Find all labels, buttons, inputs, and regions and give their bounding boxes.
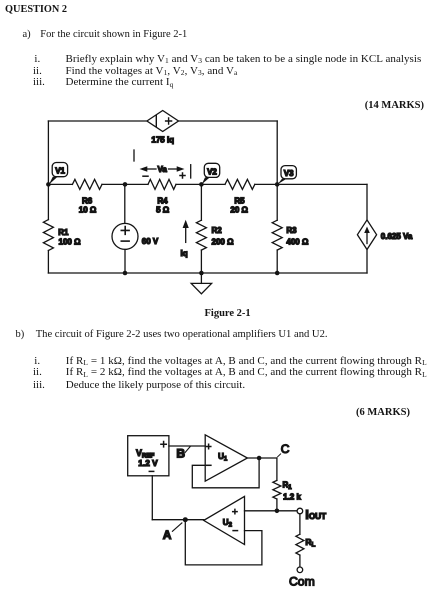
dependent source 0.625Va diamond [357,220,376,250]
node R3-bottom dot [275,271,280,276]
wire V3 to right edge [255,183,367,185]
wire VREF- down [151,476,153,520]
svg-text:C: C [281,442,290,456]
dependent source 175Iq diamond [147,111,179,132]
wire U2 plus input to IOUT [245,510,298,512]
Va annotation tick right [190,165,192,178]
item b.i [34,355,40,367]
svg-text:R6: R6 [82,197,93,206]
heading QUESTION 2 [5,4,67,15]
source 60V circle [112,223,138,249]
resistor R5 [225,179,255,189]
wire left vertical to R1 [47,184,49,219]
source VREF box [128,436,169,476]
ground [191,273,211,294]
item a.iii [33,76,45,88]
current Iq arrow [183,220,189,243]
resistor R6 [72,179,102,189]
Va annotation tick left [133,150,135,161]
wire top-right drop to V3 [276,121,278,184]
svg-text:B: B [176,446,185,460]
svg-text:V2: V2 [207,167,217,176]
wire C corner down to R1 [276,458,278,480]
svg-text:Com: Com [289,574,315,588]
svg-text:200 Ω: 200 Ω [212,237,235,246]
node label V1 callout [49,163,68,185]
node label V3 callout [278,166,297,185]
svg-text:RL: RL [305,537,315,549]
wire U1 feedback loop [192,458,259,488]
svg-text:20 Ω: 20 Ω [230,206,248,215]
wire right vertical lower [366,250,368,274]
node V1 dot [46,182,51,187]
Va arrow left [140,166,157,171]
wire V2 branch upper [200,184,202,220]
resistor R3 [272,220,282,250]
svg-text:V1: V1 [55,167,65,176]
svg-text:U1: U1 [218,452,228,463]
resistor R2 [196,220,206,250]
item b.ii [33,366,42,378]
wire V3 branch upper [276,184,278,220]
wire top rail left segment [48,120,146,122]
node C label [278,442,290,457]
wire right vertical upper [366,184,368,220]
svg-text:0.625 Va: 0.625 Va [381,232,413,241]
item b) label [16,329,25,341]
node V2 dot [199,182,204,187]
node U1 output dot [257,456,262,461]
item a) label [23,29,31,41]
resistor R1 (fig2-2) [273,480,281,499]
svg-text:400 Ω: 400 Ω [286,237,309,246]
svg-text:R1: R1 [283,480,293,491]
item b.iii [33,379,45,391]
terminal Com circle [297,567,303,573]
node V3 dot [275,182,280,187]
svg-text:175 Iq: 175 Iq [151,136,174,145]
item a.ii [33,65,42,77]
resistor R1 [43,220,53,251]
Va minus sign [143,175,148,177]
op-amp U2 [204,496,245,544]
item b) text [36,329,328,341]
op-amp U1 [205,435,247,481]
svg-text:1.2 V: 1.2 V [138,458,158,468]
svg-text:1.2 k: 1.2 k [283,492,301,501]
resistor R4 [148,179,176,189]
svg-text:IOUT: IOUT [305,507,326,522]
svg-text:R3: R3 [286,226,297,235]
svg-text:U2: U2 [223,518,233,529]
wire U2 feedback loop [185,520,262,565]
item a.i [34,53,40,65]
svg-text:V3: V3 [284,169,294,178]
Va plus sign [180,173,185,178]
svg-text:60 V: 60 V [142,237,159,246]
wire middle rail V1 to R6 [48,183,72,185]
wire top rail right segment [179,120,278,122]
wire node A horizontal to U2 output [152,519,203,521]
resistor RL [296,534,304,555]
node R2-bottom dot [199,271,204,276]
wire R3 to bottom [276,250,278,273]
wire R2 to bottom [200,250,202,273]
svg-text:Va: Va [158,165,168,174]
wire U1 output to C corner [247,457,277,459]
svg-text:R4: R4 [157,197,168,206]
wire IOUT to RL [299,514,301,534]
item a) text [40,29,187,41]
wire R6 to 60V node [102,183,148,185]
wire left vertical upper [47,121,49,184]
marks (14 MARKS) [365,100,424,112]
svg-text:R2: R2 [212,226,223,235]
node 60V-bottom dot [123,271,128,276]
wire 60V to bottom [124,249,126,273]
node A label [163,523,182,542]
svg-text:A: A [163,528,172,542]
wire bottom rail [48,272,367,274]
node label V2 callout [202,163,220,184]
svg-text:5 Ω: 5 Ω [156,206,170,215]
svg-text:10 Ω: 10 Ω [79,206,97,215]
node R1/U2+ junction dot [275,509,280,514]
svg-text:Iq: Iq [181,249,188,258]
terminal IOUT circle [297,508,303,514]
svg-text:R1: R1 [58,228,69,237]
node B label [176,446,190,460]
wire R1 to bottom [47,251,49,274]
node 60V-top dot [123,182,128,187]
node A dot [183,517,188,522]
wire RL to Com terminal [299,555,301,567]
caption Figure 2-1 [205,308,251,320]
wire VREF+ to U1 plus input (node B) [169,445,205,447]
svg-text:100 Ω: 100 Ω [59,237,82,246]
wire 60V branch upper [124,184,126,223]
Va arrow right [169,166,185,171]
marks (6 MARKS) [356,407,410,419]
wire R1 to junction [276,499,278,511]
wire R4 to V2 [176,183,225,185]
svg-text:R5: R5 [234,197,245,206]
